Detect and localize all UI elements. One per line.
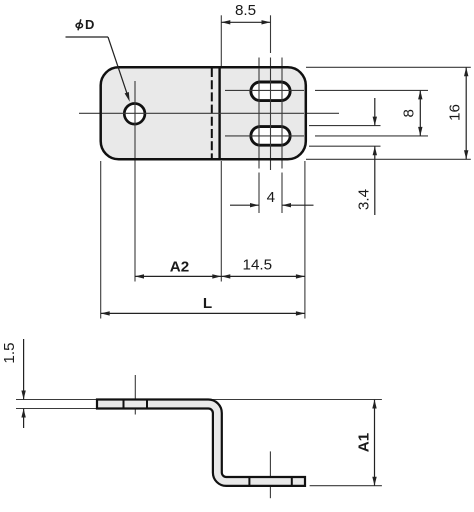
svg-text:D: D xyxy=(85,17,94,32)
svg-text:L: L xyxy=(203,295,212,312)
svg-text:3.4: 3.4 xyxy=(356,189,373,210)
svg-text:4: 4 xyxy=(267,189,275,206)
svg-text:A1: A1 xyxy=(355,432,372,452)
svg-text:14.5: 14.5 xyxy=(243,257,273,274)
svg-text:8: 8 xyxy=(401,109,418,117)
svg-text:16: 16 xyxy=(446,104,463,121)
svg-text:8.5: 8.5 xyxy=(235,2,256,19)
svg-text:1.5: 1.5 xyxy=(1,342,18,363)
svg-text:A2: A2 xyxy=(170,259,189,276)
